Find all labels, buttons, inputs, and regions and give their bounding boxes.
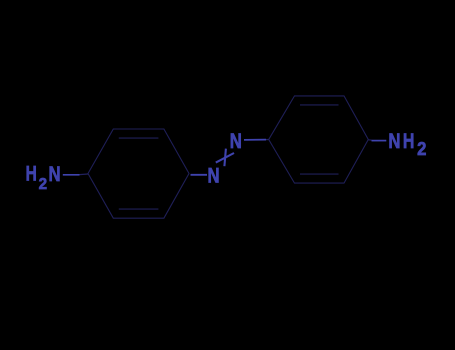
- bond azo N upper to ring right: dark stub: [266, 139, 269, 141]
- svg-text:N: N: [49, 163, 61, 186]
- azo N=N crossed double bond steep line: [224, 149, 226, 167]
- svg-text:N: N: [207, 165, 219, 188]
- azo N=N crossed double bond shallow line: [216, 153, 234, 163]
- bond H2N to ring left: dark half near ring: [80, 173, 89, 176]
- svg-text:2: 2: [39, 175, 48, 192]
- bond ring right to NH2: bright half near N: [372, 140, 387, 142]
- svg-text:N: N: [230, 130, 242, 153]
- benzene ring right outline: [269, 96, 369, 183]
- svg-text:2: 2: [417, 138, 426, 159]
- benzene ring right inner double bond top: [300, 104, 339, 106]
- svg-text:N: N: [388, 130, 400, 153]
- benzene ring left inner double bond top: [119, 137, 159, 139]
- label NH2: [388, 130, 426, 159]
- benzene ring right inner double bond bottom: [300, 173, 339, 175]
- bond ring left to azo N lower: [191, 174, 208, 176]
- bond azo N upper to ring right: [244, 139, 266, 141]
- svg-text:H: H: [403, 130, 414, 154]
- benzene ring left inner double bond bottom: [119, 208, 159, 210]
- bond ring right to NH2: dark half near ring: [368, 139, 371, 141]
- bond H2N to ring left: bright half near N: [63, 174, 80, 176]
- label H2N: [26, 161, 61, 193]
- svg-text:H: H: [26, 161, 37, 185]
- benzene ring left outline: [88, 129, 189, 218]
